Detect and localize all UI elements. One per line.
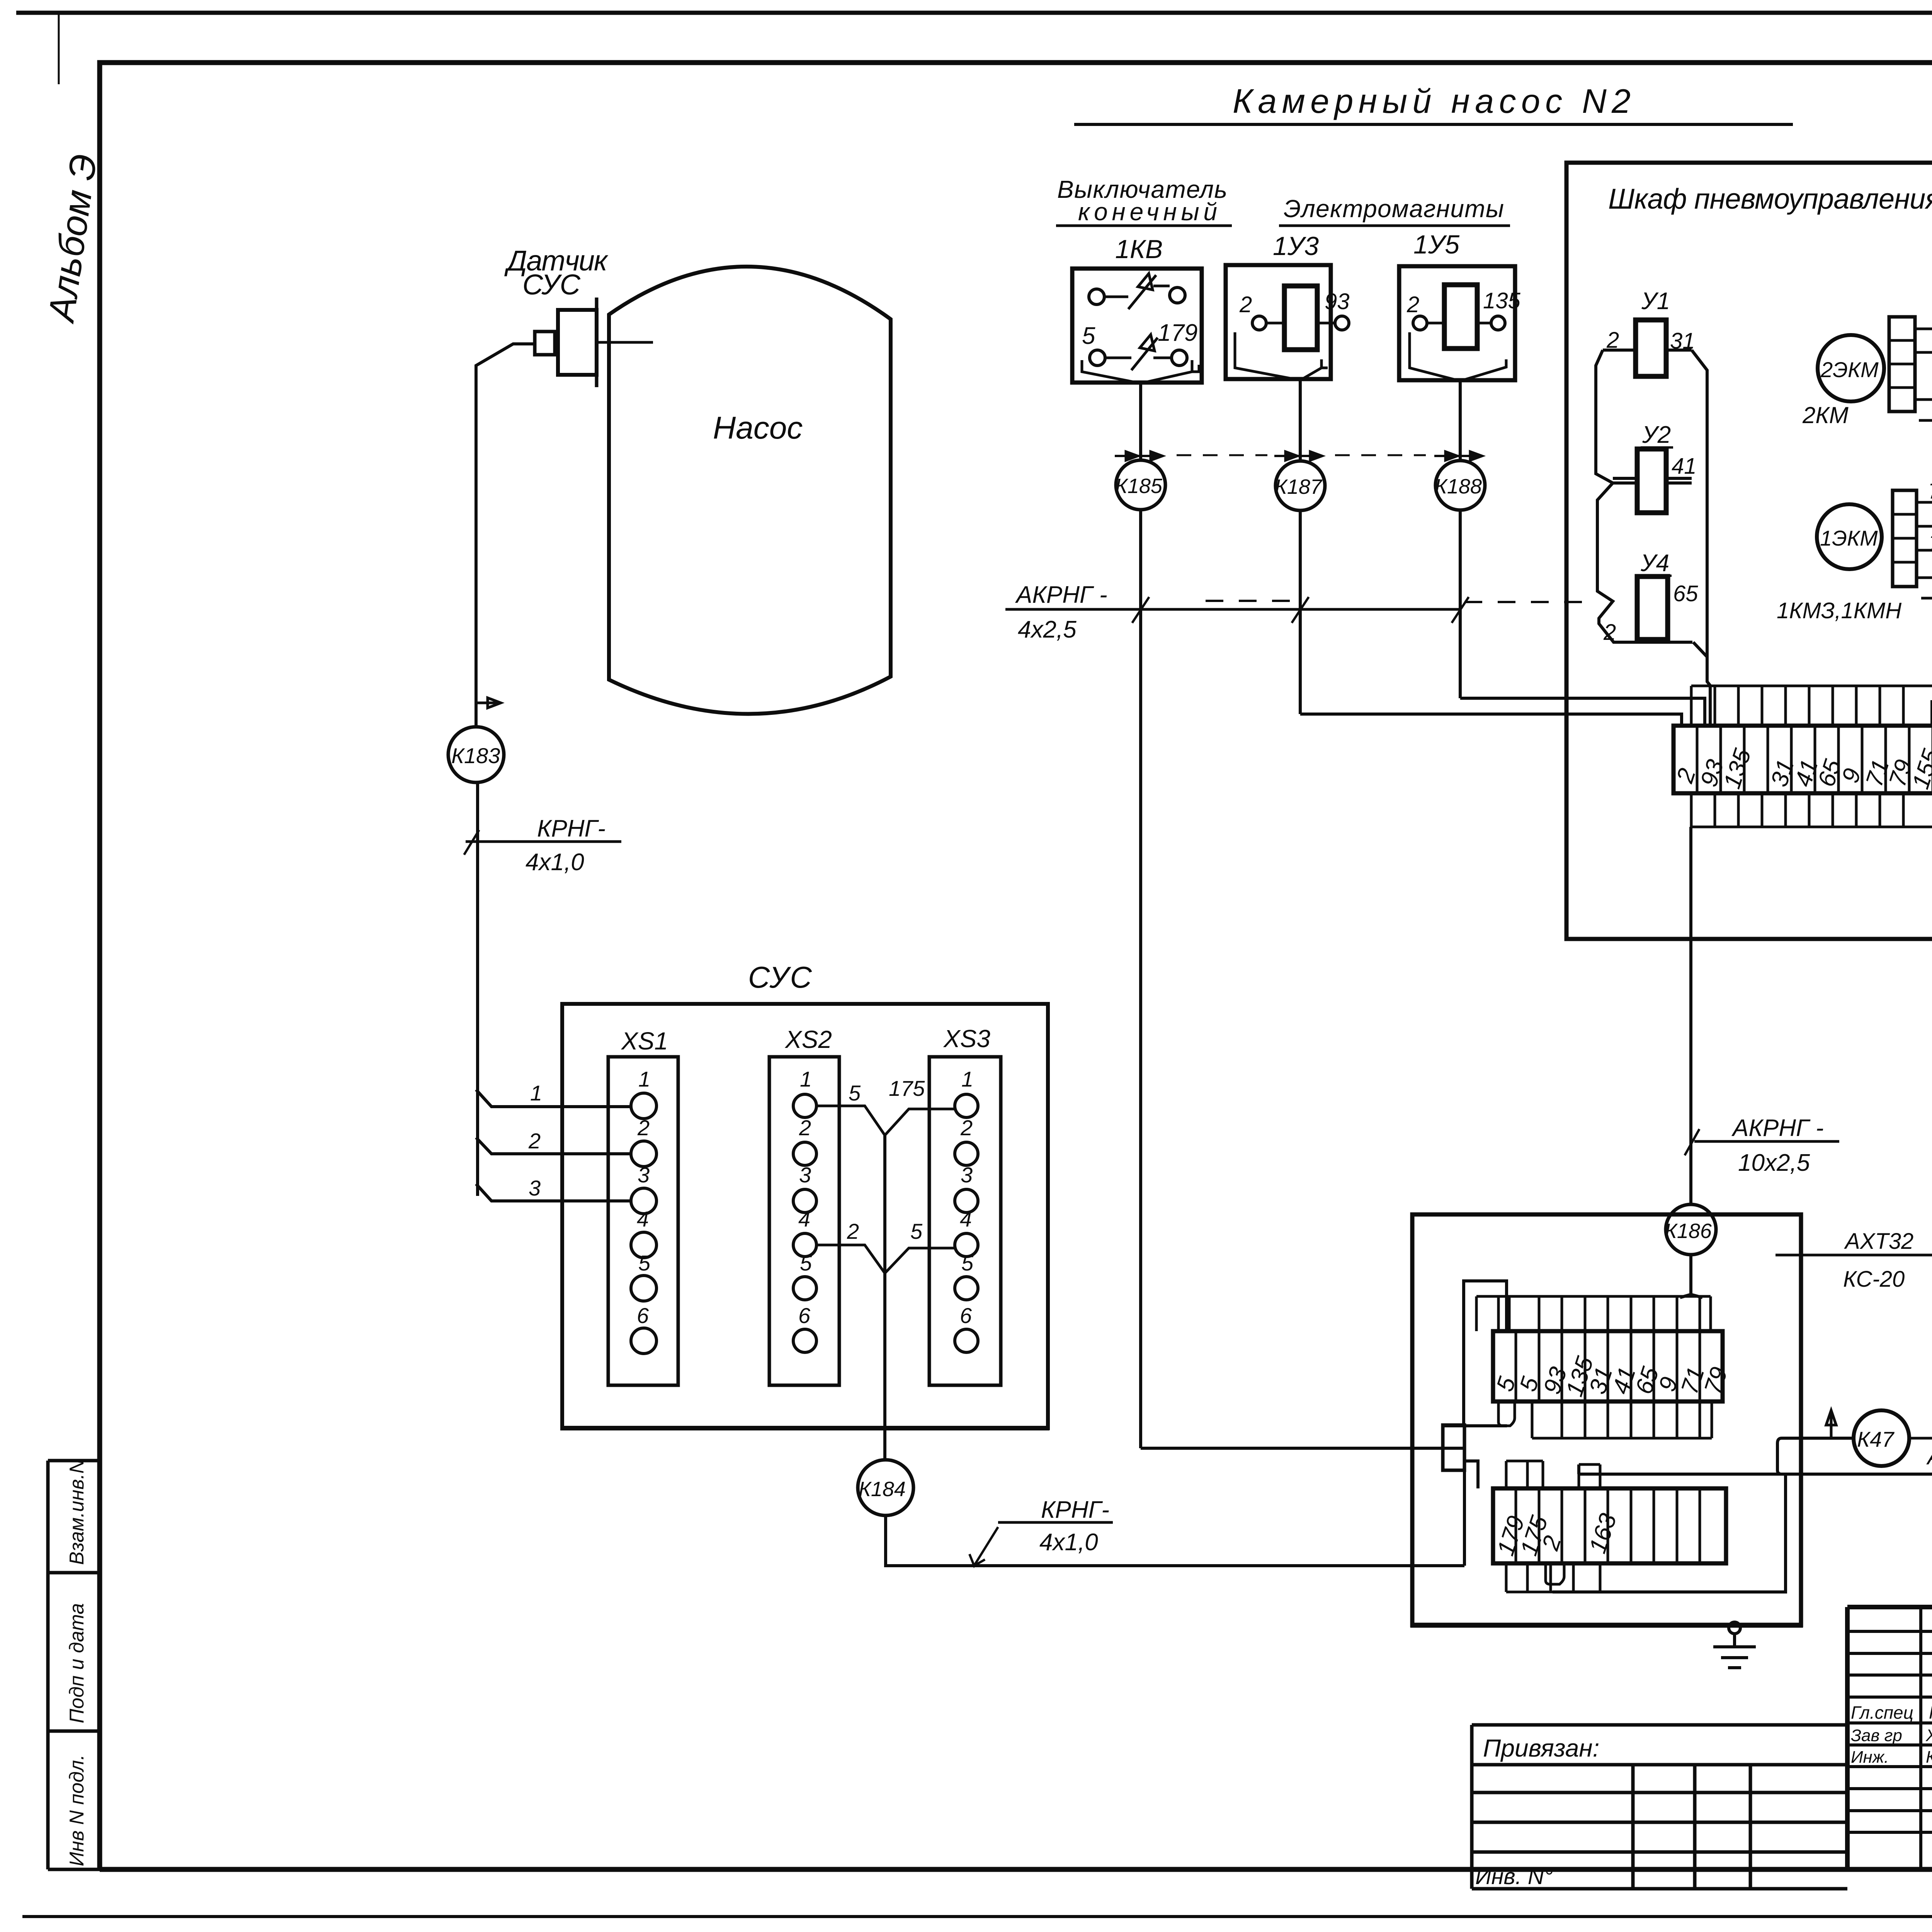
svg-text:Шкаф пневмоуправления: Шкаф пневмоуправления — [1608, 183, 1932, 215]
svg-text:4: 4 — [960, 1207, 972, 1231]
svg-text:Инв N подл.: Инв N подл. — [66, 1755, 88, 1866]
svg-text:К183: К183 — [451, 743, 500, 768]
svg-text:Потехин: Потехин — [1929, 1702, 1932, 1723]
svg-text:4х1,0: 4х1,0 — [1039, 1529, 1098, 1556]
svg-text:1: 1 — [530, 1081, 542, 1105]
svg-text:ХS3: ХS3 — [943, 1025, 990, 1053]
svg-text:1: 1 — [800, 1067, 812, 1091]
svg-text:2: 2 — [960, 1116, 973, 1140]
svg-text:3: 3 — [799, 1163, 811, 1187]
svg-text:2: 2 — [1239, 292, 1252, 317]
svg-text:КРНГ-: КРНГ- — [1041, 1497, 1109, 1523]
svg-text:2: 2 — [1406, 292, 1419, 317]
svg-text:2: 2 — [799, 1116, 811, 1140]
svg-text:КРНГ-: КРНГ- — [537, 815, 605, 842]
svg-text:ХS1: ХS1 — [621, 1027, 668, 1055]
svg-text:У2: У2 — [1642, 422, 1671, 448]
svg-text:135: 135 — [1483, 288, 1521, 313]
svg-text:5: 5 — [961, 1251, 974, 1275]
svg-text:К184: К184 — [859, 1478, 906, 1501]
svg-text:5: 5 — [638, 1251, 651, 1275]
svg-text:Зав гр: Зав гр — [1851, 1726, 1902, 1745]
svg-text:1: 1 — [638, 1067, 650, 1091]
svg-text:6: 6 — [798, 1303, 811, 1328]
svg-text:Хрипушкина: Хрипушкина — [1925, 1726, 1932, 1745]
svg-text:6: 6 — [960, 1303, 972, 1328]
svg-text:Привязан:: Привязан: — [1483, 1734, 1599, 1762]
svg-text:Кадыкова: Кадыкова — [1926, 1748, 1932, 1767]
svg-text:5: 5 — [849, 1081, 861, 1105]
svg-text:3: 3 — [961, 1163, 973, 1187]
svg-text:АКРНГ -: АКРНГ - — [1015, 582, 1107, 608]
svg-text:К186: К186 — [1665, 1219, 1712, 1243]
svg-text:179: 179 — [1158, 320, 1197, 346]
svg-text:3: 3 — [638, 1163, 650, 1187]
svg-text:6: 6 — [637, 1303, 649, 1328]
svg-text:СУС: СУС — [522, 269, 581, 301]
svg-text:АХТ32: АХТ32 — [1844, 1229, 1913, 1254]
svg-text:10х2,5: 10х2,5 — [1738, 1150, 1810, 1176]
svg-text:5: 5 — [1082, 323, 1095, 349]
svg-text:Взам.инв.N: Взам.инв.N — [66, 1459, 88, 1565]
svg-text:К188: К188 — [1435, 475, 1482, 498]
svg-text:1КВ: 1КВ — [1115, 235, 1163, 264]
svg-text:К187: К187 — [1275, 475, 1323, 498]
svg-text:СУС: СУС — [748, 960, 812, 994]
svg-text:К47: К47 — [1857, 1427, 1895, 1451]
svg-text:КС-20: КС-20 — [1843, 1267, 1905, 1292]
svg-text:3: 3 — [529, 1176, 541, 1200]
svg-text:1У5: 1У5 — [1413, 230, 1459, 259]
svg-text:АКРНГ - 14х2,5: АКРНГ - 14х2,5 — [1926, 1444, 1932, 1469]
svg-text:41: 41 — [1672, 454, 1697, 479]
svg-text:Гл.спец: Гл.спец — [1851, 1702, 1913, 1723]
svg-text:2КМ: 2КМ — [1802, 402, 1849, 428]
svg-text:Инв. N°: Инв. N° — [1475, 1864, 1553, 1889]
svg-text:Подп и дата: Подп и дата — [66, 1603, 88, 1723]
svg-text:Насос: Насос — [713, 410, 803, 446]
svg-text:1КМЗ,1КМН: 1КМЗ,1КМН — [1777, 598, 1901, 623]
svg-text:У1: У1 — [1641, 288, 1670, 315]
svg-text:93: 93 — [1325, 289, 1350, 314]
svg-text:1У3: 1У3 — [1273, 231, 1319, 261]
svg-text:2: 2 — [847, 1219, 859, 1243]
svg-text:4х2,5: 4х2,5 — [1018, 616, 1077, 643]
svg-text:5: 5 — [910, 1219, 923, 1243]
svg-text:Инж.: Инж. — [1851, 1748, 1889, 1767]
svg-text:5: 5 — [800, 1251, 812, 1275]
svg-text:2: 2 — [528, 1129, 541, 1153]
svg-text:4: 4 — [637, 1207, 649, 1231]
svg-text:65: 65 — [1673, 581, 1698, 606]
svg-text:175: 175 — [889, 1076, 925, 1100]
svg-text:1: 1 — [961, 1067, 973, 1091]
svg-text:71: 71 — [1928, 479, 1932, 503]
svg-text:1ЭКМ: 1ЭКМ — [1820, 526, 1878, 550]
svg-text:конечный: конечный — [1078, 198, 1217, 226]
svg-text:2ЭКМ: 2ЭКМ — [1820, 357, 1879, 382]
svg-text:2: 2 — [637, 1116, 650, 1140]
svg-text:К185: К185 — [1115, 474, 1163, 498]
svg-text:4х1,0: 4х1,0 — [526, 849, 584, 876]
svg-text:ХS2: ХS2 — [784, 1026, 832, 1053]
svg-text:АКРНГ -: АКРНГ - — [1731, 1115, 1824, 1141]
svg-text:4: 4 — [798, 1207, 810, 1231]
svg-text:У4: У4 — [1640, 550, 1669, 577]
svg-text:Электромагниты: Электромагниты — [1284, 195, 1504, 223]
